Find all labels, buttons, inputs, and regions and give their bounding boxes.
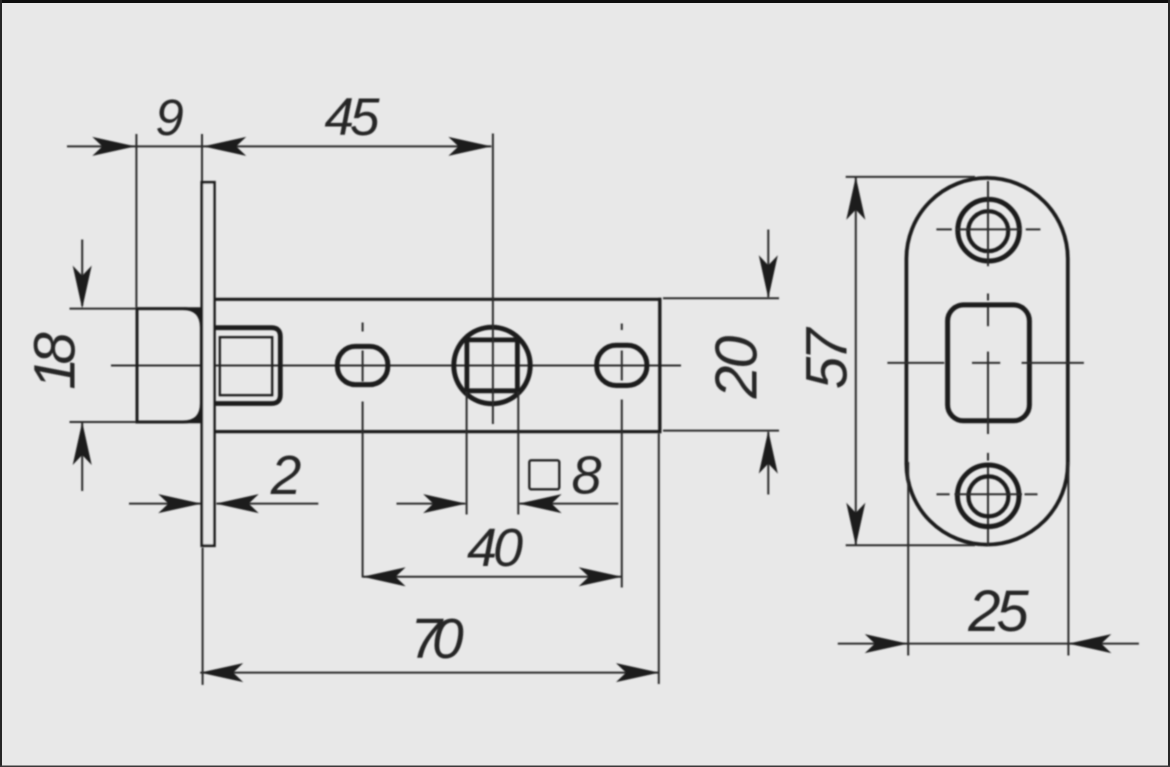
dimension 2 and 8 shared line (129, 503, 618, 505)
arrow 70 right (616, 663, 659, 682)
extension line 70 right (658, 434, 660, 685)
arrow 40 right (579, 567, 622, 586)
dimension 40 (363, 576, 622, 578)
extension line bolt face (135, 134, 137, 307)
extension line 25 right (1067, 462, 1069, 656)
strike plate center hole (948, 305, 1030, 421)
arrow 9 left (92, 137, 135, 156)
photo border top (0, 0, 1170, 3)
bottom hole crosshair (937, 493, 1038, 495)
strike plate bottom screw hole inner (968, 476, 1008, 516)
extension line 57 top (846, 176, 975, 178)
hole 3 (oval) (597, 345, 647, 385)
arrow 18 bottom (73, 422, 92, 465)
dimension 20 (663, 230, 779, 495)
arrow 8 left (423, 494, 466, 513)
svg-text:9: 9 (155, 89, 183, 146)
arrow 40 left (363, 567, 406, 586)
arrow 70 left (200, 663, 243, 682)
strike plate top screw hole outer (958, 199, 1020, 261)
bolt tail inner line (220, 337, 272, 395)
latch body top edge (213, 298, 661, 301)
hole 1 (oval) (337, 346, 387, 384)
svg-text:20: 20 (704, 336, 770, 400)
hole 3 vertical centerline (621, 324, 623, 588)
top hole crosshair (936, 228, 1040, 230)
arrow 45 left (203, 137, 246, 156)
extension line 57 bottom (846, 544, 975, 546)
photo border left (0, 0, 2, 767)
arrow 2 left (158, 494, 201, 513)
arrow 57 top (846, 177, 865, 220)
arrow 25 right (1068, 634, 1111, 653)
hole 2 (spindle circle) (454, 327, 530, 403)
main horizontal centerline of latch (111, 365, 681, 367)
strike plate vertical centerline (987, 181, 989, 546)
arrow 20 top (759, 255, 778, 298)
latch body right edge (658, 298, 661, 433)
extension line plate face (201, 134, 203, 181)
extension line 25 left (907, 462, 909, 656)
arrow 45 right (448, 137, 491, 156)
latch bolt head (137, 307, 201, 423)
arrow 20 bottom (759, 431, 778, 474)
svg-text:25: 25 (967, 579, 1029, 644)
arrow 8 right (519, 494, 562, 513)
dimension 18 (70, 240, 137, 492)
latch body bottom edge (213, 430, 661, 433)
bolt tail housing (thick outline) (216, 328, 281, 404)
svg-text:40: 40 (467, 518, 523, 578)
strike plate bottom screw hole outer (957, 465, 1019, 527)
dimension 25 (838, 643, 1139, 645)
square hole extension lines (467, 392, 519, 515)
strike plate outline (906, 178, 1067, 545)
dimension 57 (855, 177, 857, 546)
faceplate (202, 182, 215, 545)
arrow 25 left (865, 634, 908, 653)
square symbol (529, 460, 559, 489)
hole 1 vertical centerline (362, 323, 364, 578)
dimension 9 and 45 shared line (67, 145, 491, 147)
extension line 70 left (202, 548, 204, 685)
arrow 2 right (216, 494, 259, 513)
photo border bottom (0, 766, 1170, 767)
strike plate top screw hole inner (968, 211, 1008, 251)
svg-text:2: 2 (270, 444, 302, 506)
center hole horizontal centerline (887, 362, 1084, 364)
photo border right (1168, 0, 1170, 767)
arrow 57 bottom (846, 503, 865, 546)
arrow 18 top (73, 266, 92, 309)
dimension 70 (200, 672, 659, 674)
svg-text:57: 57 (795, 326, 860, 389)
svg-text:45: 45 (325, 88, 380, 147)
svg-text:18: 18 (23, 333, 88, 390)
svg-text:8: 8 (571, 446, 601, 506)
hole 2 square (467, 340, 518, 391)
hole 2 vertical centerline (492, 134, 494, 425)
